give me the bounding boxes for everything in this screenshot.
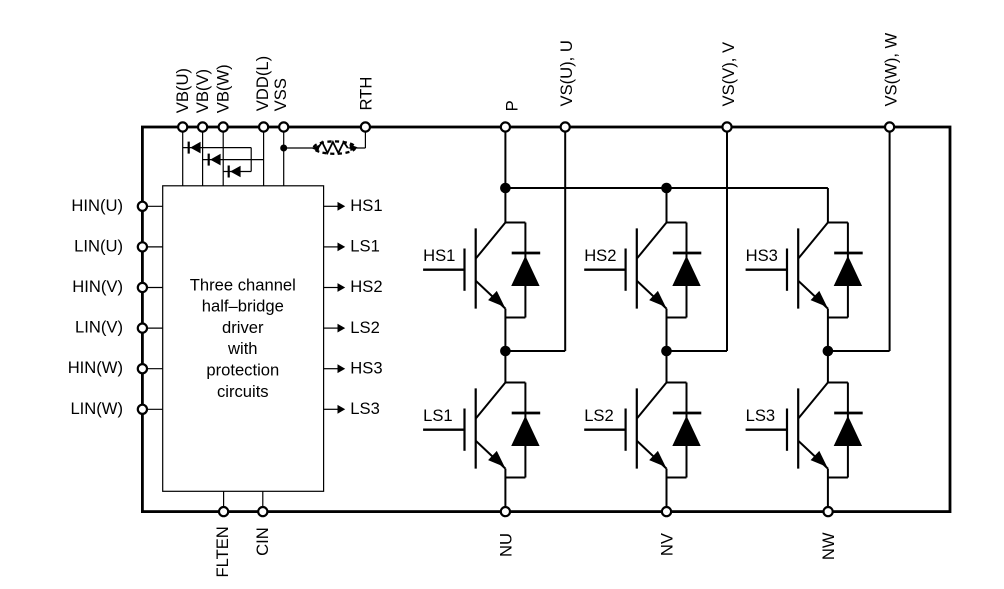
svg-text:NV: NV (658, 533, 677, 556)
diode D3 (VB(W) bootstrap) (229, 166, 241, 178)
pin LIN(W) (70, 399, 147, 418)
node P-HS2 junction (661, 183, 672, 194)
wire FLTEN stub (223, 491, 225, 511)
pin VB(U) (173, 68, 192, 132)
pin HIN(U) (71, 196, 147, 215)
wire LIN(V) stub (142, 327, 162, 329)
svg-text:VS(V), V: VS(V), V (719, 42, 738, 107)
wire VB(V) stub to driver (202, 127, 204, 186)
pin RTH (357, 77, 376, 132)
wire HIN(W) stub (142, 368, 162, 370)
wire VS(W) vertical (889, 127, 891, 351)
wire LS3 emitter to N pin (827, 478, 829, 512)
wire VS(U) vertical (564, 127, 566, 351)
wire HIN(U) stub (142, 205, 162, 207)
wire LS2 collector (666, 351, 668, 383)
transistor LS1 (IGBT) (423, 383, 525, 478)
transistor LS2 (IGBT) (584, 383, 686, 478)
svg-text:LS3: LS3 (746, 406, 776, 425)
node LS1 label (350, 237, 380, 256)
svg-text:LS1: LS1 (423, 406, 453, 425)
wire phase W to VS (828, 350, 890, 352)
diode LS3 freewheel (834, 383, 863, 478)
svg-text:HS2: HS2 (584, 246, 616, 265)
svg-text:driver: driver (222, 318, 264, 337)
wire HS1 emitter to phase node (504, 318, 506, 352)
svg-text:HIN(W): HIN(W) (68, 358, 123, 377)
svg-text:LS2: LS2 (584, 406, 614, 425)
svg-text:VDD(L): VDD(L) (253, 56, 272, 111)
svg-text:VB(U): VB(U) (173, 68, 192, 113)
wire P pin drop (504, 127, 506, 188)
svg-text:protection: protection (206, 361, 279, 380)
pin NV (658, 507, 677, 556)
svg-text:LIN(W): LIN(W) (70, 399, 123, 418)
diode D1 (VB(U) bootstrap) (189, 142, 201, 154)
pin FLTEN (213, 507, 232, 578)
node LS3 label (350, 399, 380, 418)
wire phase U to VS (505, 350, 565, 352)
wire VB(W) stub to driver (222, 127, 224, 186)
node phase V junction (661, 346, 672, 357)
wire LS1 collector (504, 351, 506, 383)
pin HIN(W) (68, 358, 147, 377)
wire driver output LS1 arrow (324, 243, 346, 252)
svg-text:Three channel: Three channel (190, 275, 296, 294)
wire LS3 collector (827, 351, 829, 383)
svg-text:LS3: LS3 (350, 399, 380, 418)
transistor LS3 (IGBT) (746, 383, 848, 478)
svg-text:FLTEN: FLTEN (213, 526, 232, 577)
pin VDD(L) (253, 56, 272, 132)
wire HS2 collector (666, 188, 668, 223)
diode HS2 freewheel (672, 223, 701, 318)
wire VB(U) stub to driver (182, 127, 184, 186)
wire CIN stub (262, 491, 264, 511)
wire HS2 emitter to phase node (666, 318, 668, 352)
wire bootstrap row U (183, 147, 252, 149)
pin VB(V) (193, 69, 212, 132)
wire driver output HS1 arrow (324, 202, 346, 211)
pin VS(W), W (881, 32, 900, 131)
svg-text:HS3: HS3 (350, 358, 382, 377)
transistor HS2 (IGBT) (584, 223, 686, 318)
pin LIN(V) (75, 318, 147, 337)
pin NW (819, 507, 838, 560)
node HS3 gate label (746, 246, 778, 265)
wire LIN(W) stub (142, 408, 162, 410)
svg-text:RTH: RTH (357, 77, 376, 111)
wire P bus (505, 187, 828, 189)
wire HS1 collector (504, 188, 506, 223)
driver block text (190, 275, 296, 401)
transistor HS1 (IGBT) (423, 223, 525, 318)
svg-text:CIN: CIN (253, 527, 272, 556)
resistor RTH (thermistor) (312, 141, 358, 153)
svg-text:HS3: HS3 (746, 246, 778, 265)
svg-text:LS1: LS1 (350, 237, 380, 256)
pin LIN(U) (74, 236, 147, 255)
svg-text:LIN(V): LIN(V) (75, 318, 123, 337)
wire VSS node to RTH (284, 147, 317, 149)
wire driver output LS3 arrow (324, 405, 346, 414)
pin HIN(V) (72, 277, 147, 296)
svg-text:VS(W), W: VS(W), W (881, 32, 900, 106)
svg-text:LS2: LS2 (350, 318, 380, 337)
svg-text:with: with (227, 339, 258, 358)
wire driver output HS2 arrow (324, 283, 346, 292)
svg-text:HIN(V): HIN(V) (72, 277, 123, 296)
wire VS(V) vertical (726, 127, 728, 351)
wire driver output LS2 arrow (324, 324, 346, 333)
wire HIN(V) stub (142, 287, 162, 289)
svg-text:P: P (503, 100, 522, 111)
svg-text:circuits: circuits (217, 382, 269, 401)
pin NU (496, 507, 515, 557)
diode HS1 freewheel (511, 223, 540, 318)
diode D2 (VB(V) bootstrap) (209, 154, 221, 166)
svg-text:HS1: HS1 (350, 196, 382, 215)
diode HS3 freewheel (834, 223, 863, 318)
svg-text:HS1: HS1 (423, 246, 455, 265)
wire driver output HS3 arrow (324, 364, 346, 373)
svg-text:VS(U), U: VS(U), U (557, 40, 576, 106)
wire LS1 emitter to N pin (504, 478, 506, 512)
wire bootstrap row V (203, 159, 264, 161)
wire bootstrap join (250, 148, 252, 172)
node HS1 label (350, 196, 382, 215)
svg-text:HS2: HS2 (350, 277, 382, 296)
pin VSS (271, 78, 290, 132)
wire RTH to pin (348, 127, 365, 148)
wire outer bus frame (142, 127, 950, 512)
wire LS2 emitter to N pin (666, 478, 668, 512)
wire VDD(L) stub to driver (263, 127, 265, 186)
svg-text:HIN(U): HIN(U) (71, 196, 123, 215)
node HS3 label (350, 358, 382, 377)
wire bootstrap row W (223, 171, 251, 173)
driver block U1 (three channel half-bridge driver) (163, 186, 324, 492)
node LS2 label (350, 318, 380, 337)
svg-text:VB(W): VB(W) (213, 64, 232, 113)
svg-text:half–bridge: half–bridge (202, 297, 284, 316)
node LS3 gate label (746, 406, 776, 425)
wire phase V to VS (667, 350, 728, 352)
pin CIN (253, 507, 272, 556)
svg-text:LIN(U): LIN(U) (74, 236, 123, 255)
node P-HS1 junction (500, 183, 511, 194)
pin VS(U), U (557, 40, 576, 131)
node LS2 gate label (584, 406, 614, 425)
node HS1 gate label (423, 246, 455, 265)
node phase W junction (823, 346, 834, 357)
wire HS3 emitter to phase node (827, 318, 829, 352)
svg-text:VB(V): VB(V) (193, 69, 212, 113)
node phase U junction (500, 346, 511, 357)
diode LS1 freewheel (511, 383, 540, 478)
pin P (501, 100, 522, 131)
node VSS/RTH junction (280, 145, 287, 152)
node HS2 label (350, 277, 382, 296)
wire HS3 collector (827, 188, 829, 223)
wire LIN(U) stub (142, 246, 162, 248)
node LS1 gate label (423, 406, 453, 425)
diode LS2 freewheel (672, 383, 701, 478)
pin VB(W) (213, 64, 232, 131)
svg-text:NW: NW (819, 532, 838, 560)
node HS2 gate label (584, 246, 616, 265)
pin VS(V), V (719, 42, 738, 132)
wire VSS stub to driver (283, 127, 285, 186)
transistor HS3 (IGBT) (746, 223, 848, 318)
svg-text:NU: NU (496, 533, 515, 557)
svg-text:VSS: VSS (271, 78, 290, 111)
